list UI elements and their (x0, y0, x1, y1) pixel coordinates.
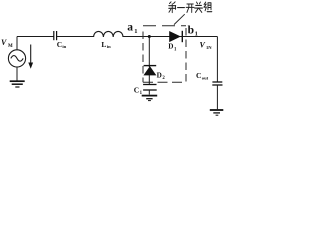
node a1 junction dot (148, 35, 151, 38)
svg-text:C: C (196, 71, 201, 80)
annotation text: 第一开关组 (hand-drawn strokes) (169, 2, 212, 13)
svg-text:b: b (188, 24, 194, 36)
wire: D1 to right corner (182, 36, 217, 38)
wire: source to ground (16, 67, 18, 81)
svg-text:C: C (134, 85, 139, 94)
svg-text:1: 1 (134, 28, 137, 35)
capacitor C_out (212, 82, 222, 85)
capacitor C_in (54, 31, 57, 40)
svg-text:D: D (168, 43, 173, 51)
label C_out (196, 71, 209, 80)
leader line to label (174, 14, 185, 24)
wire: L_in to D1 (123, 36, 182, 38)
wire: C_in to L_in (57, 36, 94, 38)
wire: source riser (16, 37, 18, 50)
diode D1 (170, 31, 183, 42)
ground (C1 branch) (142, 96, 158, 101)
label D2 (157, 71, 166, 81)
label D1 (168, 43, 177, 53)
char 开 (186, 4, 194, 12)
ground (source) (10, 81, 25, 87)
svg-text:V: V (200, 40, 206, 49)
capacitor C1 (143, 85, 157, 91)
wire: main rail left (17, 36, 54, 38)
label a1 (127, 22, 137, 35)
svg-text:in: in (107, 44, 111, 49)
diode D2 (144, 66, 157, 75)
label C_in (57, 40, 67, 49)
char 组 (204, 2, 212, 12)
wire: branch a1 down to D2 (148, 37, 150, 68)
svg-text:out: out (202, 76, 209, 81)
wire: C1 to ground (148, 90, 150, 95)
svg-text:D: D (157, 71, 162, 79)
ground (output) (210, 110, 224, 115)
svg-text:a: a (127, 22, 133, 34)
svg-text:L: L (101, 40, 106, 49)
char 关 (195, 2, 203, 12)
char 第 (169, 2, 176, 13)
wire: C_out to ground (216, 85, 218, 109)
wire: D2 to C1 (148, 75, 150, 84)
label V_1N (200, 40, 213, 50)
svg-text:1N: 1N (206, 45, 212, 50)
AC source V_M (8, 50, 25, 67)
char 一 (178, 7, 185, 9)
svg-text:in: in (62, 44, 66, 49)
dashed box: first switch group (143, 26, 186, 82)
wire: right vertical drop (216, 37, 218, 82)
label C1 (134, 85, 143, 96)
label b1 (188, 24, 198, 37)
inductor L_in (94, 31, 123, 37)
current arrow (28, 45, 33, 69)
svg-text:V: V (1, 38, 7, 47)
svg-text:M: M (8, 44, 13, 49)
label L_in (101, 40, 111, 49)
label V_M (1, 38, 13, 49)
